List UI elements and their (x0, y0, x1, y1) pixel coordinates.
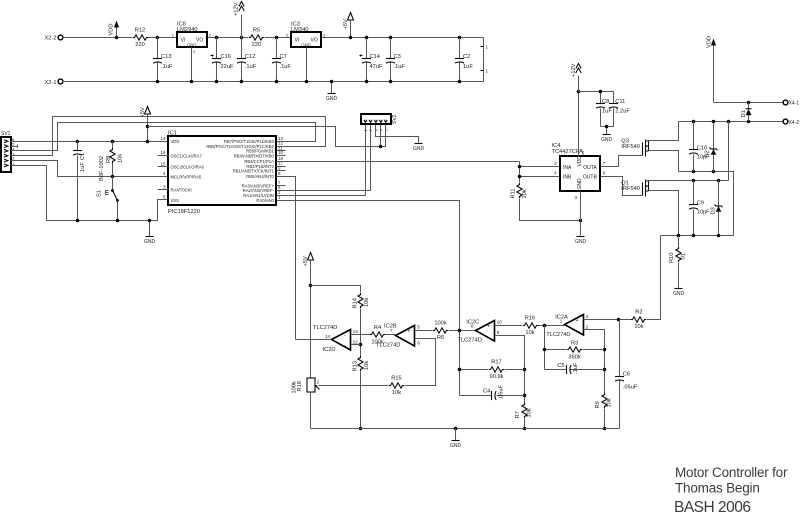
svg-text:R6: R6 (437, 335, 444, 341)
regulator IC3 LM340 (286, 21, 326, 47)
zener diode D3 (710, 181, 722, 236)
svg-text:VDD: VDD (171, 139, 180, 144)
resistor R14 (352, 293, 370, 357)
svg-text:LM340: LM340 (291, 27, 308, 33)
svg-text:10k: 10k (118, 154, 124, 163)
capacitor C2 (455, 36, 473, 84)
svg-text:VI: VI (181, 38, 186, 44)
svg-text:TLC274D: TLC274D (376, 343, 400, 349)
IC1 right pin numbers (278, 136, 284, 200)
svg-text:VO: VO (311, 38, 318, 44)
microcontroller IC1 PIC18F1220 (168, 130, 276, 215)
svg-text:C7: C7 (280, 54, 287, 60)
svg-text:R7: R7 (515, 411, 521, 418)
svg-text:C3: C3 (394, 54, 401, 60)
svg-text:IC2D: IC2D (323, 347, 336, 353)
svg-text:1uF: 1uF (463, 64, 473, 70)
op-amp IC2D (313, 325, 358, 353)
wire PWM node to IC4 inputs (518, 162, 560, 183)
svg-text:RB4/AN6/RX/DT/KB0: RB4/AN6/RX/DT/KB0 (234, 154, 275, 159)
wire RB0 to filter output (277, 177, 296, 340)
svg-text:360k: 360k (568, 355, 580, 361)
IC1 right stubs RB5 RB4 RB2 RB1 RA3 (277, 151, 286, 186)
resistor R5 (249, 28, 264, 48)
svg-text:C14: C14 (370, 54, 380, 60)
wire SV1 pin2 to MCLR (11, 161, 169, 177)
svg-text:+5V: +5V (140, 107, 146, 117)
svg-text:SV1: SV1 (1, 131, 11, 137)
supply +5V arrow top (343, 13, 354, 40)
connector SV1 (1, 131, 15, 172)
wire IC2A output feedback riser (544, 326, 546, 370)
capacitor C6 (615, 320, 638, 429)
svg-text:10pF: 10pF (697, 210, 710, 216)
svg-text:.05uF: .05uF (623, 385, 638, 391)
svg-text:X2-2: X2-2 (44, 36, 56, 42)
svg-text:S1: S1 (97, 190, 103, 197)
svg-text:R13: R13 (352, 361, 358, 371)
capacitor C16 (211, 36, 234, 84)
svg-text:X4-2: X4-2 (789, 120, 800, 126)
svg-text:TLC274D: TLC274D (313, 325, 337, 331)
resistor R12 (133, 28, 148, 48)
svg-text:INA: INA (563, 165, 572, 171)
svg-text:GND: GND (187, 43, 196, 48)
svg-text:.01: .01 (681, 253, 687, 261)
svg-text:PIC18F1220: PIC18F1220 (168, 209, 200, 215)
wire IC2D output to RB0 (296, 339, 332, 341)
wire RA2 to SV2 pin2 (277, 125, 371, 191)
svg-text:TLC274D: TLC274D (546, 332, 570, 338)
svg-text:10k: 10k (634, 324, 643, 330)
svg-text:.1uF: .1uF (573, 362, 579, 374)
wire Q3 drain to X4-2 line (649, 122, 679, 141)
driver IC4 TC4427CPA (552, 143, 606, 200)
svg-text:R3: R3 (571, 340, 578, 346)
svg-text:C4: C4 (483, 388, 490, 394)
resistor R17 (458, 360, 525, 380)
svg-text:.05uF: .05uF (499, 384, 505, 399)
supply +12V arrow (234, 2, 245, 38)
svg-text:R12: R12 (135, 28, 145, 34)
terminal X2-1 (44, 79, 62, 86)
wire SV1 pin1 to ground rail (11, 166, 169, 221)
svg-text:R8: R8 (106, 156, 112, 163)
wire sense node to R2 (647, 236, 661, 320)
svg-text:10k: 10k (525, 330, 534, 336)
svg-text:LM2940: LM2940 (177, 27, 198, 33)
wire right end stub (481, 38, 489, 82)
wire IC2B inv feedback riser (405, 339, 436, 386)
svg-text:MCLR/VPP/RA5: MCLR/VPP/RA5 (171, 174, 202, 179)
svg-text:C16: C16 (221, 54, 231, 60)
diode D1 (741, 103, 752, 122)
op-amp IC2A (546, 314, 588, 338)
op-amp IC2B (376, 324, 420, 349)
ground symbol below IC1 (144, 219, 156, 245)
capacitor C4 (460, 384, 525, 400)
wire IC2C noninv to IC2A output with R16 (495, 316, 565, 336)
connector SV2 (361, 114, 398, 132)
svg-text:1uF: 1uF (602, 109, 612, 115)
supply VDD arrow (109, 21, 119, 40)
svg-text:C11: C11 (615, 99, 625, 105)
resistor R9 (595, 393, 613, 430)
svg-text:R10: R10 (669, 253, 675, 263)
svg-text:+: + (344, 344, 347, 350)
svg-text:+: + (576, 318, 579, 324)
svg-text:C5: C5 (557, 363, 564, 369)
svg-text:10k: 10k (364, 361, 370, 370)
resistor R15 (319, 376, 405, 396)
svg-text:TLC274D: TLC274D (458, 338, 482, 344)
wire IC2D inv input and R4 (352, 325, 396, 345)
wire IC3 GND pin (305, 48, 309, 84)
wire IC4 VDD pin (577, 90, 581, 157)
svg-text:OUTB: OUTB (583, 175, 598, 181)
capacitor C13 (153, 36, 173, 84)
svg-text:+12V: +12V (234, 2, 240, 16)
svg-text:C12: C12 (245, 54, 255, 60)
svg-text:C6: C6 (623, 372, 630, 378)
svg-text:10k: 10k (522, 189, 528, 198)
wire bottom power rail (63, 81, 484, 83)
capacitor C14 (360, 36, 383, 84)
svg-text:C9: C9 (697, 200, 704, 206)
resistor R13 (352, 356, 370, 430)
wire SV1 pin3 to bus A to IC1 pin12 (11, 117, 326, 156)
wire filter ground rail (311, 427, 620, 431)
svg-text:VI: VI (295, 38, 300, 44)
wire X4-2 net (679, 120, 783, 124)
svg-text:VDD: VDD (109, 23, 115, 35)
svg-text:OSC1/CLKI/RA7: OSC1/CLKI/RA7 (171, 154, 203, 159)
capacitor C8 (579, 90, 614, 127)
svg-text:+: + (487, 324, 490, 330)
capacitor C11 (601, 92, 631, 127)
svg-text:B3F-1002: B3F-1002 (99, 156, 105, 181)
ground symbol SV2 (413, 144, 425, 153)
svg-text:R17: R17 (491, 360, 501, 366)
svg-text:R9: R9 (595, 401, 601, 408)
resistor R11 (510, 183, 582, 222)
wire Q1 source to sense rail (649, 191, 679, 236)
wire IC2B noninv to IC2C output with R6 (416, 321, 476, 341)
IC1 left pin numbers (160, 136, 166, 200)
svg-text:X4-1: X4-1 (789, 100, 800, 106)
svg-text:+: + (408, 329, 411, 335)
svg-text:.1uF: .1uF (80, 162, 86, 174)
svg-text:INB: INB (563, 175, 572, 181)
zener diode D2 (705, 122, 718, 172)
svg-text:.1uF: .1uF (280, 64, 292, 70)
wire bus C +5V to SV2 pins 4 5 (148, 125, 386, 149)
wire SV1 pin4 to bus B to IC1 pin13 (11, 123, 316, 151)
svg-text:R15: R15 (391, 376, 401, 382)
ground symbol R10 (673, 289, 685, 298)
wire IC4 GND pin (580, 192, 582, 236)
capacitor C7 (272, 36, 291, 84)
svg-text:220: 220 (135, 42, 145, 48)
svg-text:2.2uF: 2.2uF (615, 109, 630, 115)
wire OUTB to Q1 gate (601, 177, 643, 196)
svg-text:IRF540: IRF540 (621, 144, 640, 150)
terminal X4-2 (783, 119, 799, 126)
svg-text:14: 14 (325, 334, 331, 339)
svg-text:100k: 100k (292, 381, 298, 393)
svg-text:VDD: VDD (706, 36, 712, 48)
svg-text:OSC2/CLKO/RA6: OSC2/CLKO/RA6 (171, 165, 205, 170)
svg-text:R5: R5 (253, 28, 260, 34)
wire RA1 to SV2 pin1 (277, 125, 366, 196)
svg-text:OUTA: OUTA (583, 165, 597, 171)
svg-text:12: 12 (353, 339, 359, 344)
svg-text:.1uF: .1uF (394, 64, 406, 70)
regulator IC8 LM2940 (172, 21, 212, 47)
wire IC2A noninv and R2 (584, 310, 661, 330)
wire IC2D noninv stub (352, 344, 361, 346)
resistor R7 (515, 403, 533, 430)
wire top power rail (63, 37, 484, 39)
ground symbol C8 C11 (601, 125, 613, 143)
svg-text:VSS: VSS (171, 198, 180, 203)
svg-text:D2: D2 (705, 150, 711, 157)
terminal X4-1 (783, 100, 799, 106)
wire SV1 pin5 stub (11, 145, 18, 148)
svg-text:15: 15 (160, 161, 166, 166)
resistor R8 (106, 140, 124, 179)
capacitor C9 (689, 181, 710, 236)
svg-text:.1uF: .1uF (161, 64, 173, 70)
svg-text:X2-1: X2-1 (44, 80, 56, 86)
wire RA0 to filter node (277, 201, 460, 396)
wire RB3 PWM to driver (277, 161, 520, 163)
supply +5V arrow filter (303, 253, 313, 378)
wire SV1 pin6 VDD row (11, 141, 169, 143)
ground symbol power rail (326, 80, 338, 102)
wire SV2 pin3 to ground (376, 125, 419, 144)
svg-text:90.9k: 90.9k (490, 374, 504, 380)
title text Motor Controller (674, 465, 788, 516)
op-amp IC2C (458, 320, 503, 344)
transistor Q3 IRF540 (621, 139, 648, 157)
svg-text:D1: D1 (741, 110, 747, 117)
resistor R3 (543, 340, 605, 360)
svg-text:R4: R4 (374, 325, 381, 331)
wire source rail upper (679, 170, 734, 236)
svg-text:+12V: +12V (571, 63, 577, 77)
svg-text:GND: GND (577, 178, 583, 190)
capacitor C1 (73, 140, 86, 223)
svg-text:22uF: 22uF (221, 64, 234, 70)
potentiometer R18 (292, 378, 320, 429)
svg-text:VDD: VDD (577, 156, 583, 167)
capacitor C3 (386, 36, 405, 84)
svg-text:RA4/T0CKI: RA4/T0CKI (171, 188, 192, 193)
wire Q3 source to rail (649, 151, 679, 172)
svg-text:14: 14 (160, 136, 166, 141)
svg-text:D3: D3 (710, 207, 716, 214)
IC1 left stubs OSC1 OSC2 RA4 (158, 156, 169, 190)
supply +12V arrow right (571, 63, 581, 91)
svg-text:10k: 10k (392, 390, 401, 396)
svg-text:GND: GND (301, 43, 310, 48)
svg-text:IC1: IC1 (168, 130, 177, 136)
wire +5V branch to R14 (311, 286, 361, 293)
capacitor C12 (237, 36, 257, 84)
svg-text:16: 16 (160, 150, 166, 155)
wire IC8 GND pin (190, 48, 196, 84)
svg-text:BASH 2006: BASH 2006 (674, 499, 751, 516)
wire OUTA to Q3 gate (601, 156, 643, 167)
node dot RA0 output (458, 329, 462, 372)
terminal X2-2 (44, 35, 62, 42)
svg-text:R18: R18 (297, 381, 303, 391)
svg-text:.1uF: .1uF (245, 64, 257, 70)
svg-text:47uF: 47uF (370, 64, 383, 70)
svg-text:R14: R14 (352, 298, 358, 308)
svg-text:10: 10 (497, 320, 503, 325)
svg-text:+5V: +5V (343, 19, 349, 29)
svg-text:C13: C13 (161, 54, 171, 60)
wire X4-2 to Q1 drain rail (649, 122, 729, 183)
svg-text:Thomas Begin: Thomas Begin (675, 481, 760, 496)
svg-text:10k: 10k (607, 398, 613, 407)
capacitor C10 (689, 122, 710, 172)
svg-text:R16: R16 (525, 316, 535, 322)
svg-text:R11: R11 (510, 188, 516, 198)
switch S1 B3F-1002 (97, 156, 120, 222)
svg-text:SV2: SV2 (392, 114, 398, 124)
svg-text:100k: 100k (434, 321, 446, 327)
wire sense node rail (661, 234, 734, 238)
svg-text:RB0/AN4/INT0: RB0/AN4/INT0 (246, 174, 274, 179)
svg-text:RA0/AN0: RA0/AN0 (256, 198, 274, 203)
svg-text:220: 220 (252, 42, 262, 48)
svg-text:C2: C2 (463, 54, 470, 60)
svg-text:R2: R2 (635, 310, 642, 316)
svg-text:10k: 10k (527, 408, 533, 417)
wire X4-1 net (714, 101, 783, 105)
capacitor C5 (545, 362, 605, 374)
transistor Q1 IRF540 (621, 180, 648, 197)
svg-text:C1: C1 (80, 153, 86, 160)
supply VDD arrow right (706, 36, 716, 103)
svg-text:VO: VO (196, 38, 203, 44)
svg-text:13: 13 (353, 329, 359, 334)
svg-text:C8: C8 (602, 99, 609, 105)
wire IC2C inv riser (495, 336, 527, 404)
supply +5V arrow above IC1 (140, 107, 151, 144)
svg-text:10k: 10k (364, 298, 370, 307)
resistor R10 shunt (669, 236, 687, 289)
ground symbol IC4 (575, 237, 587, 246)
svg-text:IRF540: IRF540 (621, 186, 640, 192)
ground symbol filter rail (450, 429, 462, 450)
svg-text:+5V: +5V (303, 256, 309, 266)
svg-text:Motor Controller for: Motor Controller for (675, 465, 788, 480)
wire IC2A inv riser (584, 330, 607, 394)
svg-text:RB1/AN5/TX/CK/INT1: RB1/AN5/TX/CK/INT1 (233, 169, 275, 174)
